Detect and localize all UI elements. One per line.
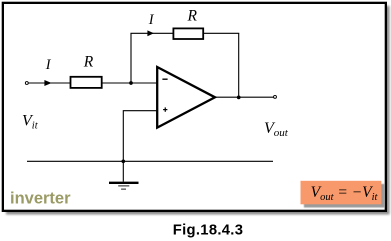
bottom rail wire [27,160,273,162]
label R (R1 value) [83,54,94,71]
wire feedback left to R2 [130,32,173,34]
wire input to R1 [29,82,71,84]
wire R2 to output branch [204,32,240,34]
resistor R2 (feedback) [173,28,203,39]
node A (inverting input junction) [129,81,133,85]
svg-text:R: R [83,54,94,71]
formula box Vout = -Vit [301,181,382,205]
wire node A up to feedback [130,33,132,83]
current arrow I (input) [44,80,51,86]
wire R1 to node A [103,82,158,84]
current arrow I (feedback) [147,30,154,36]
formula box shadow [304,184,385,208]
label inverter [10,189,71,207]
label I (feedback current) [148,12,155,28]
node C (ground junction) [121,159,125,163]
svg-text:inverter: inverter [10,189,71,207]
node B (output junction) [237,96,241,100]
wire feedback down to output node [238,33,240,97]
svg-text:R: R [187,8,198,25]
caption Fig.18.4.3 [173,223,243,239]
ground [109,161,139,189]
input terminal [25,82,28,85]
label I (input current) [45,57,52,73]
wire plus input [123,111,157,162]
op-amp inverting input pin (minus) [162,78,167,80]
svg-text:Fig.18.4.3: Fig.18.4.3 [173,223,243,239]
resistor R1 [71,77,102,88]
op-amp U1 [157,67,215,128]
label Vit (input voltage) [22,113,39,132]
wire op-amp output [215,96,273,98]
label R (R2 value) [187,8,198,25]
op-amp non-inverting input pin (plus) [163,107,167,111]
label Vout (output voltage) [264,120,289,139]
output terminal [274,95,277,98]
